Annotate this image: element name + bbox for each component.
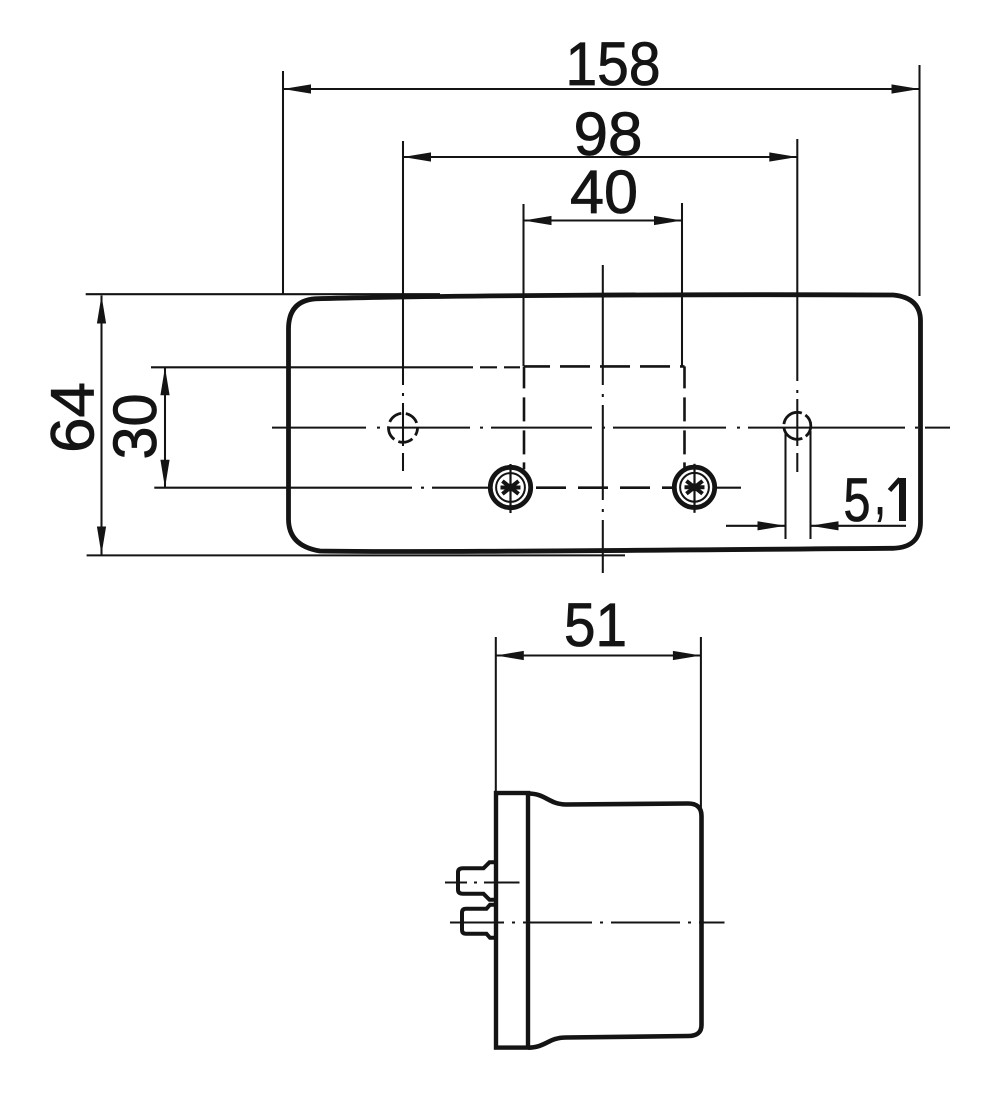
dashed bulb-housing rectangle [524, 366, 685, 487]
dimension 158: extension lines [283, 65, 920, 296]
screw centerline (y=488) [154, 487, 741, 489]
svg-text:64: 64 [39, 382, 107, 453]
vertical centerline of body [602, 265, 604, 573]
dimension 98: line + arrows [403, 152, 797, 161]
dimension 51: line + arrows [496, 651, 701, 660]
lamp body outline (rounded rect, slightly bowed edges) [289, 295, 921, 552]
dimension 40: line + arrows [524, 216, 683, 225]
dimension 158: line + arrows [283, 84, 920, 93]
dimension 98: extension lines (become hole centerlines) [403, 139, 797, 472]
lens body [528, 794, 702, 1048]
svg-text:5: 5 [844, 466, 871, 534]
dimension 51: extension lines [496, 637, 701, 812]
svg-text:40: 40 [570, 158, 638, 226]
right hole (keyhole) [784, 412, 811, 439]
dimension 64: extension lines [86, 294, 625, 555]
right screw [674, 464, 714, 513]
lower stud [462, 905, 496, 938]
svg-text:,: , [874, 459, 886, 527]
keyhole slot lines [786, 431, 811, 539]
horizontal centerline through holes [272, 427, 950, 429]
left screw [490, 464, 530, 513]
main axis centerline [450, 921, 725, 923]
svg-text:30: 30 [101, 394, 169, 460]
mounting plate [496, 793, 528, 1048]
dimension 5,1: lines + arrows [726, 521, 906, 530]
dimension 30: extension lines [151, 366, 520, 368]
dimension 30: line + arrows [160, 367, 169, 487]
svg-text:158: 158 [566, 30, 661, 98]
dimension 40: extension lines [524, 203, 683, 366]
svg-text:51: 51 [564, 591, 627, 659]
upper stud centerline [445, 881, 520, 883]
dimension 64: line + arrows [97, 296, 106, 555]
upper stud [458, 862, 496, 900]
left hole [389, 413, 418, 442]
